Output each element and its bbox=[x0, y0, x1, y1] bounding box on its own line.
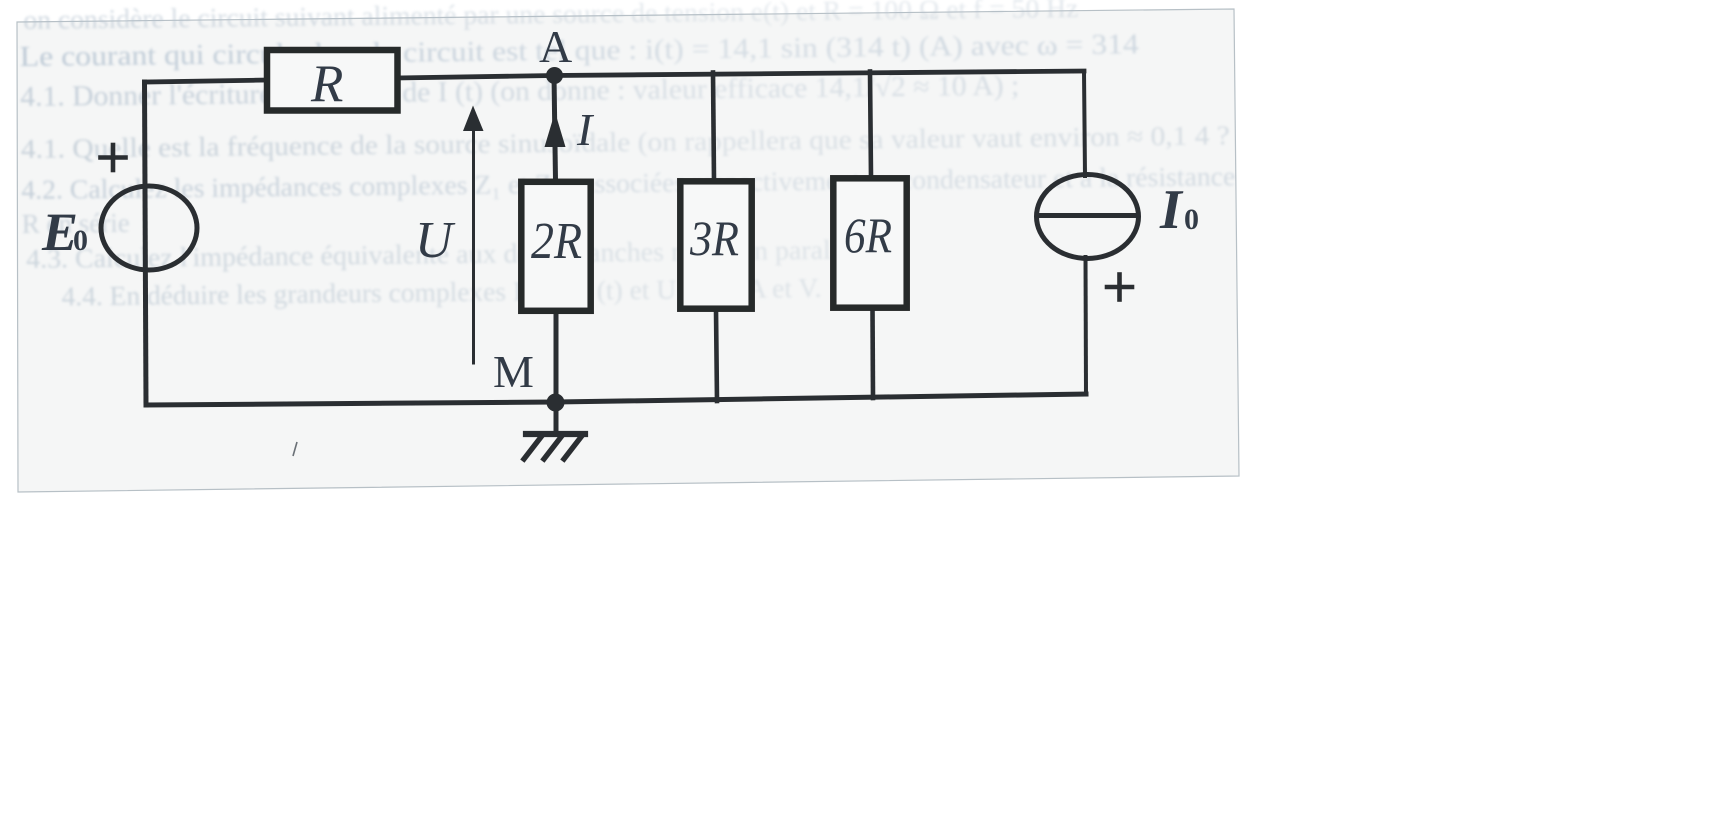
svg-text:I: I bbox=[576, 104, 595, 155]
svg-text:I: I bbox=[1159, 179, 1184, 241]
svg-text:3R: 3R bbox=[689, 210, 739, 266]
svg-text:M: M bbox=[493, 346, 534, 397]
svg-text:0: 0 bbox=[73, 224, 88, 257]
svg-text:6R: 6R bbox=[844, 207, 892, 263]
svg-text:U: U bbox=[415, 212, 456, 269]
svg-text:2R: 2R bbox=[531, 213, 582, 270]
svg-text:R: R bbox=[310, 55, 343, 113]
svg-text:A: A bbox=[539, 21, 572, 72]
svg-text:0: 0 bbox=[1184, 203, 1199, 236]
